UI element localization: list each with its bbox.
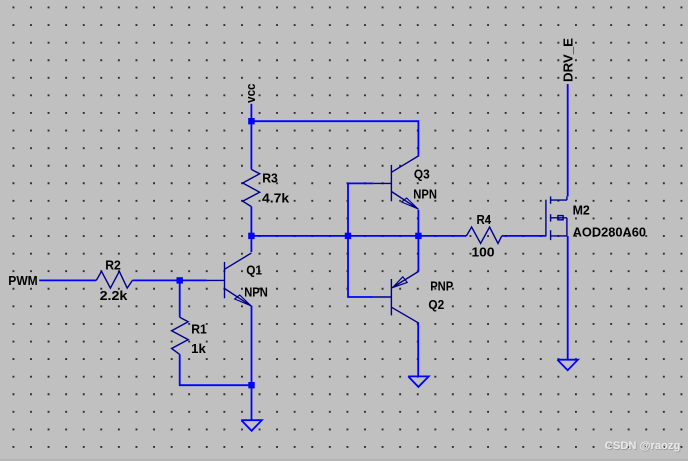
ground under Q1 emitter rail xyxy=(241,420,261,431)
wire Q3 base lead xyxy=(348,182,374,184)
svg-text:4.7k: 4.7k xyxy=(262,191,290,206)
wire node A down to R1 top xyxy=(179,280,181,317)
wire Q1 emitter down to ground xyxy=(251,306,253,421)
resistor R2 body xyxy=(96,271,132,288)
junction emitter rail (R1 bottom/Q1 emitter/ground) xyxy=(248,382,254,388)
transistor Q2 (PNP) xyxy=(374,272,419,323)
svg-text:Q2: Q2 xyxy=(428,297,444,312)
wire R1 bottom to emitter rail xyxy=(180,354,252,385)
svg-text:CSDN @raozg: CSDN @raozg xyxy=(605,440,681,452)
wire mid rail node B to R4 left xyxy=(251,235,466,237)
wire top rail vcc to Q3 collector xyxy=(251,121,418,156)
svg-text:Q3: Q3 xyxy=(414,166,430,181)
svg-text:NPN: NPN xyxy=(244,285,268,300)
svg-text:AOD280A60: AOD280A60 xyxy=(573,224,646,239)
svg-text:R2: R2 xyxy=(105,257,121,272)
resistor R4 body xyxy=(466,227,501,243)
wire Q3 emitter to node C xyxy=(417,210,419,236)
M2 body arrow square xyxy=(558,216,563,220)
svg-text:PNP: PNP xyxy=(430,278,453,293)
svg-text:PWM: PWM xyxy=(8,273,37,288)
resistor R3 body xyxy=(243,169,260,206)
wire M2 source to ground xyxy=(567,236,569,360)
wire DRV_E label to M2 drain xyxy=(567,84,569,197)
wire node VCC to R3 top xyxy=(250,121,252,169)
junction base rail crossing mid rail xyxy=(345,233,351,239)
svg-text:R3: R3 xyxy=(262,171,278,186)
svg-text:R4: R4 xyxy=(477,212,492,227)
wire R3 bottom to node B xyxy=(250,207,252,236)
wire R2 to node A junction xyxy=(132,279,207,281)
junction node A (R2/R1/Q1 base) xyxy=(177,277,183,283)
ground under Q2 collector xyxy=(408,376,429,387)
transistor Q1 (NPN) xyxy=(207,253,252,306)
wire PWM to R2 xyxy=(39,279,96,281)
wire node C to Q2 emitter xyxy=(417,236,419,272)
transistor Q3 (NPN) xyxy=(374,156,419,209)
svg-text:2.2k: 2.2k xyxy=(100,288,129,303)
wire Q2 collector to ground xyxy=(417,322,419,376)
junction node C (Q3 emitter/Q2 emitter/R4) xyxy=(415,233,421,239)
svg-text:100: 100 xyxy=(472,245,495,260)
svg-text:R1: R1 xyxy=(191,321,207,336)
wire Q1 collector to node B xyxy=(250,236,252,252)
junction node B (R3/Q1 collector/mid rail) xyxy=(248,233,254,239)
svg-text:vcc: vcc xyxy=(243,84,258,103)
svg-text:M2: M2 xyxy=(573,202,590,217)
svg-text:DRV_E: DRV_E xyxy=(560,38,575,82)
svg-text:Q1: Q1 xyxy=(246,262,262,277)
wire R4 right to M2 gate xyxy=(502,235,546,237)
svg-text:NPN: NPN xyxy=(413,186,437,201)
ground under M2 source xyxy=(557,360,578,371)
resistor R1 body xyxy=(172,317,189,354)
wire vcc label to node VCC xyxy=(250,104,252,121)
svg-text:1k: 1k xyxy=(191,341,207,356)
MOSFET M2 (NMOS) xyxy=(546,196,567,240)
wire base rail Q3 base down to Q2 base xyxy=(348,183,374,297)
junction node VCC (vcc/R3/top rail) xyxy=(248,118,254,124)
